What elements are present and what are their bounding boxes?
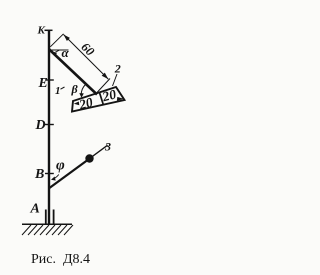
svg-text:3: 3 <box>104 140 111 154</box>
svg-text:α: α <box>62 45 70 60</box>
svg-text:2: 2 <box>114 62 121 76</box>
svg-text:E: E <box>38 76 48 91</box>
svg-text:β: β <box>71 82 79 96</box>
svg-text:1: 1 <box>55 85 61 97</box>
svg-text:K: K <box>37 25 46 37</box>
svg-text:D: D <box>35 118 46 133</box>
svg-text:φ: φ <box>56 157 65 173</box>
svg-text:Рис. Д8.4: Рис. Д8.4 <box>31 252 90 267</box>
svg-text:A: A <box>30 202 40 217</box>
svg-text:B: B <box>34 167 44 182</box>
